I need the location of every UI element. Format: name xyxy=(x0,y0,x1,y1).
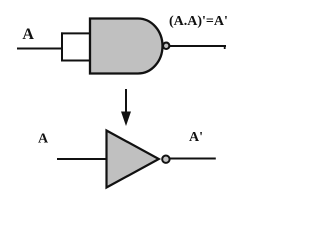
wire (lower NAND input) xyxy=(61,60,91,62)
wire (branch vertical tying both NAND inputs) xyxy=(61,32,63,61)
wire (bottom output) xyxy=(170,158,216,160)
wire (upper NAND input) xyxy=(61,32,91,34)
wire (top output) xyxy=(170,45,226,47)
wire (bottom input A) xyxy=(57,158,107,160)
output bubble of NOT gate xyxy=(162,156,169,163)
output bubble of NAND xyxy=(163,43,169,49)
NAND gate xyxy=(90,19,162,74)
svg-text:A: A xyxy=(38,132,49,147)
wire (small tick at end of top output wire) xyxy=(224,46,226,49)
svg-text:A: A xyxy=(22,26,34,43)
arrow (equivalence, pointing down) xyxy=(121,89,131,126)
svg-text:A': A' xyxy=(189,130,203,145)
NOT gate (inverter triangle) xyxy=(107,131,159,188)
wire (top input A horizontal) xyxy=(17,48,62,50)
svg-text:(A.A)'=A': (A.A)'=A' xyxy=(169,14,228,29)
